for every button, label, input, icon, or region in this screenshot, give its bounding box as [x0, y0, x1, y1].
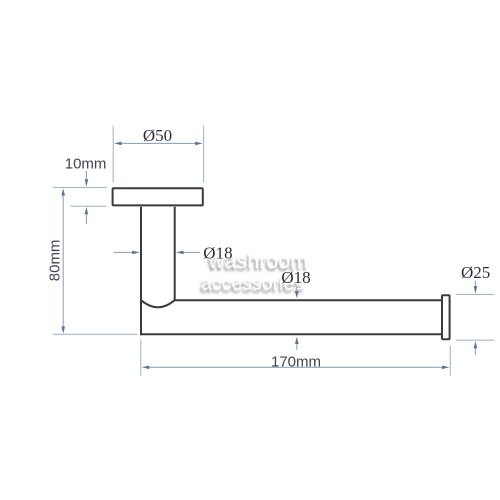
tube bend seam: [141, 300, 175, 307]
svg-text:Ø18: Ø18: [281, 268, 310, 287]
post tube right edge: [174, 207, 176, 300]
dimension 10mm: [53, 155, 107, 224]
svg-text:Ø50: Ø50: [143, 126, 172, 145]
post tube left edge: [140, 207, 142, 334]
dimension Ø25: [456, 263, 495, 355]
svg-text:Ø25: Ø25: [461, 263, 490, 282]
end cap: [442, 295, 450, 339]
svg-text:10mm: 10mm: [65, 155, 107, 172]
wall flange plate: [113, 188, 203, 205]
bar tube top edge: [175, 299, 442, 301]
dimension 170mm: [141, 340, 451, 376]
dimension 80mm: [47, 188, 138, 334]
svg-text:170mm: 170mm: [271, 354, 321, 371]
watermark "washroom accessories": [200, 249, 309, 298]
dimension Ø18 post: [114, 243, 233, 262]
svg-text:Ø18: Ø18: [203, 243, 232, 262]
svg-text:80mm: 80mm: [47, 240, 64, 282]
dimension Ø18 bar: [281, 268, 310, 350]
bar tube bottom edge: [140, 333, 442, 335]
dimension Ø50: [113, 126, 203, 183]
